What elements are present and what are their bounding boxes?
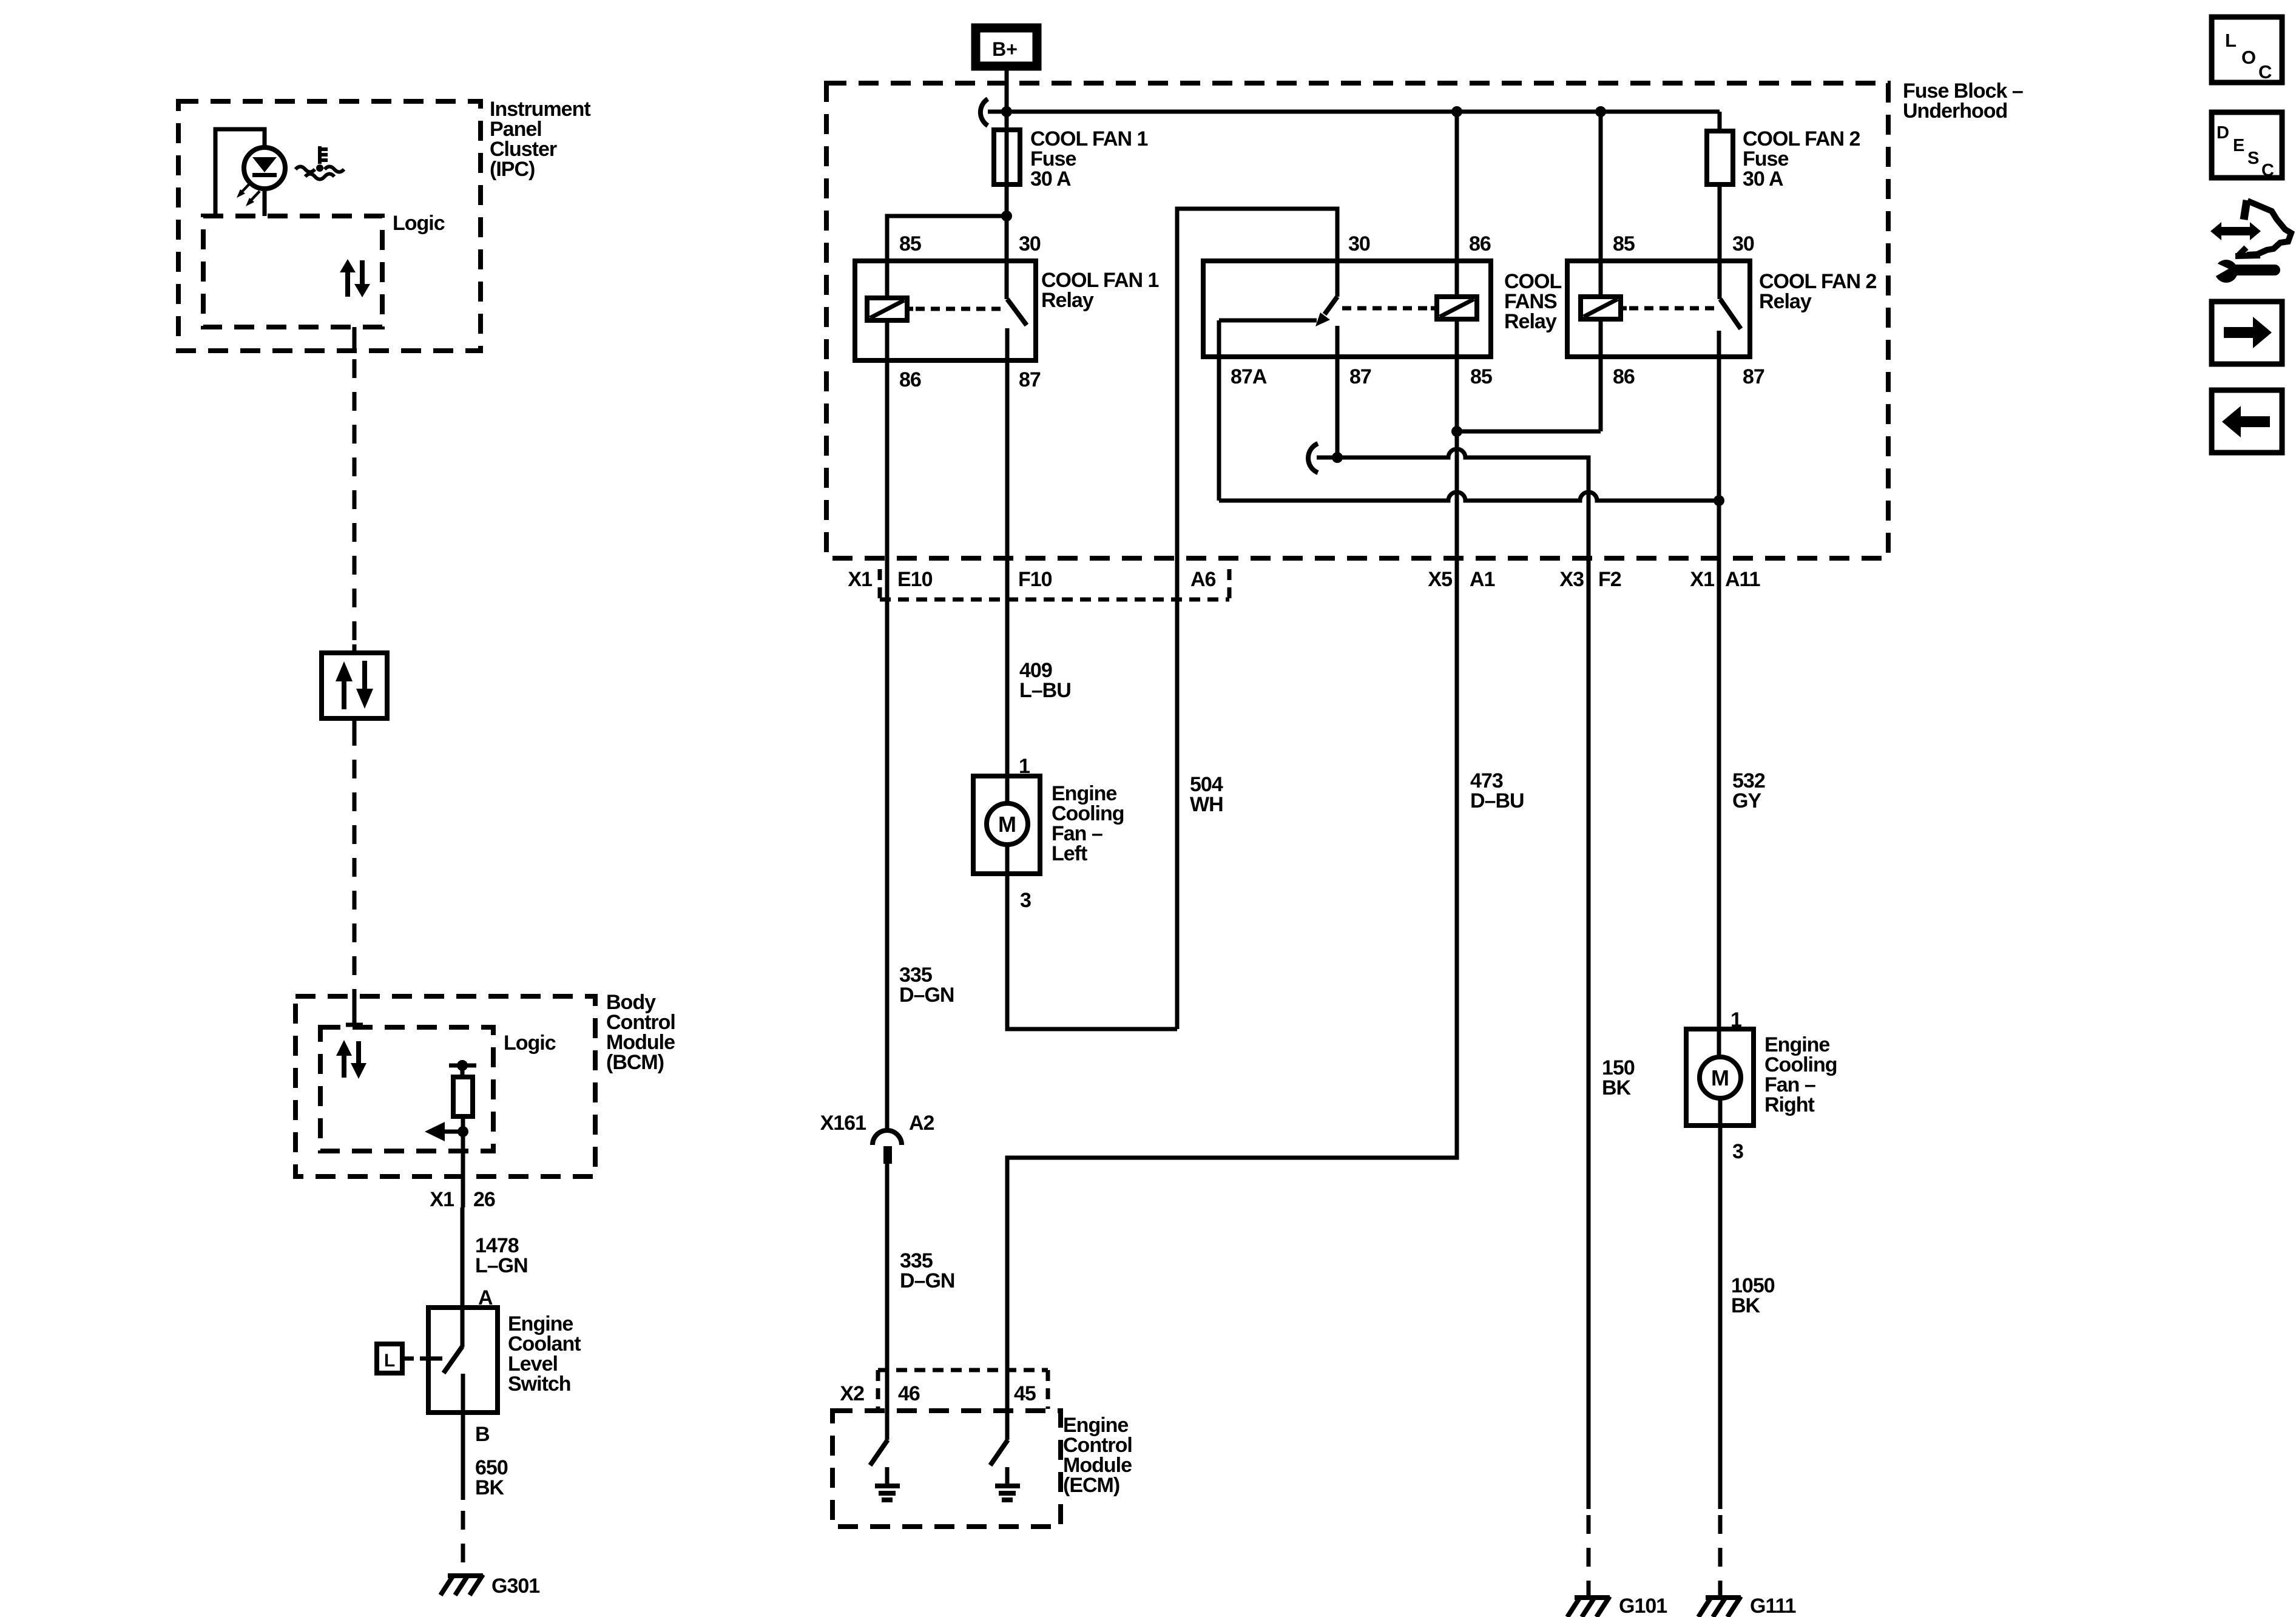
- wire data termination at BCM logic: [346, 989, 363, 1025]
- label X1 26 (BCM connector): [430, 1188, 495, 1211]
- switch actuator stub: [428, 1357, 442, 1361]
- wire serial data dashed to BCM: [353, 727, 357, 987]
- wire fuse2 to relay3 30: [1718, 184, 1722, 299]
- relay2 85 wire down to A1: [1007, 319, 1457, 1440]
- svg-text:Logic: Logic: [504, 1031, 556, 1055]
- relay3 86 wire down to junction: [1599, 319, 1603, 431]
- label Engine Cooling Fan - Right: [1764, 1033, 1837, 1116]
- relay1 coil to switch dashed link: [907, 307, 913, 311]
- svg-text:30 A: 30 A: [1743, 167, 1783, 191]
- relay1 switch blade: [1007, 299, 1027, 325]
- fuse block X1 connector strip bottom: [880, 598, 1229, 602]
- svg-text:GY: GY: [1732, 789, 1761, 812]
- label Body Control Module (BCM): [606, 991, 675, 1074]
- svg-text:L: L: [2225, 30, 2237, 51]
- relay2 87 wire down: [1335, 326, 1340, 457]
- label 335 D-GN upper: [899, 964, 954, 1007]
- svg-text:87: 87: [1019, 368, 1041, 391]
- ECM ground 46: [875, 1467, 900, 1500]
- junction dot fuse1 output: [1001, 211, 1012, 221]
- Instrument Panel Cluster (IPC) dashed box: [178, 101, 481, 351]
- svg-text:G101: G101: [1619, 1595, 1667, 1617]
- label 409 L-BU: [1019, 659, 1071, 702]
- svg-text:Logic: Logic: [393, 212, 445, 235]
- wrench: [2209, 260, 2280, 283]
- IPC Logic dashed box: [203, 216, 382, 327]
- svg-text:BK: BK: [475, 1476, 505, 1499]
- label Instrument Panel Cluster (IPC): [490, 98, 590, 181]
- ECM X2 connector strip top: [878, 1368, 1048, 1372]
- wire fan left pin3 to A6: [1007, 845, 1177, 1029]
- label COOL FAN 2 Relay: [1759, 270, 1876, 313]
- svg-text:E10: E10: [897, 568, 933, 591]
- svg-text:Right: Right: [1764, 1093, 1815, 1116]
- svg-text:86: 86: [899, 368, 921, 391]
- junction dot B+ bus: [1001, 106, 1012, 117]
- svg-text:X2: X2: [840, 1382, 864, 1405]
- svg-text:87: 87: [1349, 365, 1371, 388]
- svg-text:BK: BK: [1602, 1076, 1632, 1099]
- label 650 BK: [475, 1456, 508, 1499]
- resistor BCM pull-up: [453, 1077, 473, 1116]
- wire 1050 BK solid: [1718, 1098, 1723, 1509]
- interconnect up arrow: [336, 661, 353, 709]
- svg-text:L–BU: L–BU: [1019, 679, 1071, 702]
- switch lower contact stub: [461, 1374, 465, 1413]
- svg-text:A11: A11: [1725, 568, 1760, 591]
- svg-text:M: M: [1711, 1065, 1729, 1090]
- Engine Control Module dashed box: [832, 1411, 1061, 1527]
- svg-text:86: 86: [1613, 365, 1635, 388]
- B+ battery feed symbol box: [976, 28, 1037, 66]
- BCM pull-up node bar: [449, 1064, 476, 1068]
- fuse COOL FAN 1 30A: [994, 130, 1020, 184]
- relay3 85 stub from bus: [1599, 112, 1603, 297]
- L level sensor box: [377, 1344, 402, 1373]
- svg-text:45: 45: [1014, 1382, 1036, 1405]
- relay1 86 wire down: [885, 320, 890, 1130]
- svg-text:30: 30: [1019, 232, 1041, 255]
- ground G111: [1698, 1595, 1741, 1617]
- ground G101: [1567, 1595, 1610, 1617]
- label COOL FANS Relay: [1504, 270, 1561, 333]
- wire telltale loop top: [215, 129, 265, 216]
- svg-text:L: L: [384, 1351, 395, 1371]
- BCM Logic dashed box: [320, 1027, 493, 1151]
- label 335 D-GN lower: [900, 1249, 954, 1292]
- relay3 switch blade: [1720, 299, 1741, 329]
- svg-text:Underhood: Underhood: [1903, 100, 2007, 123]
- bus wire B+ across fuse block: [988, 110, 1720, 114]
- svg-text:30: 30: [1732, 232, 1754, 255]
- svg-text:B+: B+: [992, 38, 1018, 60]
- LED cathode bar: [252, 173, 277, 177]
- Engine Coolant Level Switch box: [428, 1308, 498, 1413]
- svg-text:Relay: Relay: [1504, 310, 1557, 333]
- interconnect up/down arrow box: [322, 653, 387, 718]
- svg-text:(ECM): (ECM): [1063, 1474, 1119, 1497]
- forward arrow box: [2212, 302, 2282, 364]
- wire 1050 BK dashed: [1718, 1515, 1723, 1595]
- label 1478 L-GN: [475, 1234, 528, 1277]
- ECM driver 46 switch blade: [870, 1440, 888, 1465]
- wire 1478 L-GN: [461, 1207, 465, 1347]
- hand outline: [2247, 201, 2291, 255]
- back arrow box: [2212, 390, 2282, 453]
- wire bus corner to fuse2: [1718, 112, 1722, 131]
- label COOL FAN 2 Fuse 30 A: [1743, 127, 1860, 191]
- label COOL FAN 1 Fuse 30 A: [1030, 127, 1147, 191]
- svg-text:30: 30: [1348, 232, 1370, 255]
- wire 87 node to F2 with hop: [1317, 449, 1589, 1509]
- fuse COOL FAN 2 30A: [1707, 131, 1733, 184]
- svg-text:D–GN: D–GN: [900, 1269, 954, 1292]
- junction dot bus at relay2 86: [1451, 106, 1462, 117]
- dashed link L to switch: [405, 1357, 427, 1361]
- svg-text:46: 46: [898, 1382, 920, 1405]
- ECM X2 connector strip left tick: [876, 1370, 880, 1409]
- coolant wave lines: [295, 167, 344, 180]
- ECM X2 connector strip right tick: [1046, 1370, 1050, 1409]
- svg-text:Left: Left: [1052, 842, 1087, 865]
- label 504 WH: [1190, 773, 1223, 816]
- svg-text:L–GN: L–GN: [475, 1254, 528, 1277]
- relay2 coil: [1437, 297, 1477, 319]
- splice curl at bus left end: [981, 99, 988, 126]
- svg-text:X1: X1: [430, 1188, 454, 1211]
- svg-text:G301: G301: [491, 1575, 539, 1598]
- svg-text:26: 26: [473, 1188, 495, 1211]
- LED diode triangle: [252, 157, 277, 172]
- splice curl at 87 node: [1308, 444, 1318, 473]
- svg-text:Relay: Relay: [1041, 289, 1094, 312]
- relay2 87A wire down: [1217, 320, 1221, 501]
- relay COOL FANS box: [1203, 261, 1491, 357]
- relay3 87 wire down to fan right: [1717, 331, 1721, 1058]
- svg-text:A1: A1: [1470, 568, 1495, 591]
- junction dot relay2-85 relay3-86: [1451, 426, 1462, 437]
- ECM driver 45 switch blade: [990, 1440, 1008, 1465]
- label Engine Control Module (ECM): [1063, 1414, 1132, 1497]
- svg-text:D–GN: D–GN: [899, 984, 954, 1007]
- relay1 87 stub down to fan motor: [1005, 328, 1010, 804]
- wire LED cathode to logic: [263, 189, 267, 216]
- hand with wrench repair icon: [2209, 200, 2291, 283]
- svg-text:A2: A2: [909, 1112, 934, 1135]
- fuse block X1 connector strip left tick: [878, 569, 882, 606]
- ground G301: [441, 1573, 483, 1595]
- svg-text:85: 85: [1470, 365, 1492, 388]
- svg-text:WH: WH: [1190, 793, 1223, 816]
- relay2 switch blade with arrow: [1315, 297, 1337, 326]
- svg-text:C: C: [2261, 161, 2274, 180]
- label 532 GY: [1732, 769, 1765, 812]
- label Fuse Block - Underhood: [1903, 79, 2023, 123]
- label Engine Coolant Level Switch: [508, 1312, 581, 1396]
- svg-text:86: 86: [1469, 232, 1491, 255]
- wire serial data dashed IPC to interconnect box: [353, 359, 357, 644]
- svg-text:M: M: [998, 812, 1016, 837]
- svg-text:87A: 87A: [1231, 365, 1267, 388]
- BCM logic up arrow: [336, 1040, 352, 1078]
- svg-text:85: 85: [899, 232, 921, 255]
- hand cuff stroke: [2235, 248, 2260, 256]
- fan right motor circle: [1700, 1057, 1741, 1098]
- junction dot 87 node: [1332, 452, 1343, 463]
- junction dot BCM sense node: [458, 1126, 468, 1137]
- IPC logic down arrow: [354, 260, 370, 297]
- svg-text:E: E: [2233, 136, 2244, 155]
- BCM sense arrow: [425, 1122, 463, 1141]
- double headed arrow: [2210, 222, 2261, 240]
- svg-text:(BCM): (BCM): [606, 1051, 664, 1074]
- wire node to resistor: [461, 1065, 465, 1077]
- svg-text:X1: X1: [1690, 568, 1714, 591]
- relay COOL FAN 1 box: [855, 261, 1036, 360]
- LED emission arrows: [237, 183, 260, 206]
- switch blade coolant level: [444, 1346, 462, 1373]
- thermometer bulb: [316, 164, 323, 172]
- relay3 coil: [1581, 297, 1621, 319]
- fuse block X1 connector strip right tick: [1227, 569, 1232, 606]
- svg-text:X1: X1: [848, 568, 872, 591]
- junction dot 87A line at relay3 87 wire: [1714, 495, 1724, 506]
- relay3 coil dashed link: [1621, 306, 1627, 311]
- wire resistor to sense node: [461, 1116, 465, 1207]
- wire 650 BK solid: [461, 1413, 465, 1500]
- wire 335 D-GN to ECM 46: [885, 1164, 890, 1440]
- svg-text:X5: X5: [1428, 568, 1452, 591]
- svg-text:X3: X3: [1559, 568, 1584, 591]
- Engine Cooling Fan Left motor box: [973, 776, 1040, 874]
- LOC navigation box: [2212, 17, 2282, 83]
- label 1050 BK: [1731, 1274, 1775, 1317]
- junction dot bus at relay3 85: [1595, 106, 1606, 117]
- svg-text:C: C: [2258, 61, 2272, 83]
- svg-text:Relay: Relay: [1759, 290, 1812, 313]
- svg-text:S: S: [2247, 149, 2259, 168]
- hand thumb stroke: [2244, 200, 2247, 220]
- svg-text:F2: F2: [1598, 568, 1621, 591]
- junction dot BCM top node: [457, 1060, 468, 1071]
- label X161 A2: [820, 1112, 934, 1135]
- svg-text:Switch: Switch: [508, 1372, 571, 1396]
- svg-text:F10: F10: [1018, 568, 1052, 591]
- label Engine Cooling Fan - Left: [1052, 782, 1124, 865]
- relay COOL FAN 2 box: [1567, 261, 1750, 357]
- interconnect down arrow: [356, 661, 373, 709]
- svg-text:X161: X161: [820, 1112, 866, 1135]
- BCM logic down arrow: [351, 1041, 366, 1079]
- svg-text:87: 87: [1743, 365, 1764, 388]
- back arrow: [2222, 406, 2270, 437]
- interconnect box stubs: [353, 644, 357, 727]
- svg-text:B: B: [475, 1423, 490, 1446]
- svg-text:A6: A6: [1190, 568, 1216, 591]
- svg-text:85: 85: [1613, 232, 1635, 255]
- label 150 BK: [1602, 1056, 1635, 1099]
- label 473 D-BU: [1470, 769, 1524, 812]
- ECM ground 45: [995, 1467, 1020, 1500]
- Fuse Block Underhood dashed box: [826, 83, 1888, 558]
- wire relay2 85 to relay3 86: [1457, 430, 1601, 434]
- wire relay2 30 up and over to A6: [1177, 209, 1337, 1029]
- Body Control Module (BCM) dashed box: [295, 996, 595, 1176]
- IPC logic up arrow: [340, 259, 356, 297]
- svg-text:3: 3: [1020, 889, 1031, 912]
- svg-text:D–BU: D–BU: [1470, 789, 1524, 812]
- relay1 coil: [867, 298, 907, 320]
- fan left motor circle: [987, 803, 1028, 845]
- wire 150 BK dashed: [1587, 1515, 1591, 1595]
- indicator LED telltale circle: [244, 147, 285, 189]
- relay2 87A contact line: [1219, 319, 1317, 323]
- wire 650 BK dashed to ground: [461, 1511, 465, 1573]
- wire 87A to relay3 87 with hops: [1219, 492, 1719, 501]
- coolant temperature gauge icon thermometer: [320, 146, 328, 164]
- svg-text:G111: G111: [1750, 1595, 1796, 1617]
- connector X161 arc: [873, 1130, 902, 1145]
- svg-text:(IPC): (IPC): [490, 158, 535, 181]
- wire logic output stub: [353, 327, 357, 352]
- relay2 coil dashed link: [1431, 306, 1437, 311]
- wire B+ feed down to relay 30: [1005, 70, 1009, 299]
- svg-text:3: 3: [1732, 1140, 1743, 1163]
- svg-text:D: D: [2217, 123, 2229, 143]
- svg-text:BK: BK: [1731, 1294, 1761, 1317]
- label COOL FAN 1 Relay: [1041, 269, 1158, 312]
- forward arrow: [2224, 317, 2272, 348]
- Engine Cooling Fan Right motor box: [1686, 1029, 1754, 1126]
- DESC navigation box: [2212, 112, 2282, 178]
- relay2 86 stub from bus: [1455, 112, 1459, 297]
- connector X161 terminal: [883, 1146, 892, 1164]
- svg-text:30 A: 30 A: [1030, 167, 1071, 191]
- svg-text:O: O: [2241, 47, 2256, 68]
- wire branch to relay1 85: [887, 216, 1007, 298]
